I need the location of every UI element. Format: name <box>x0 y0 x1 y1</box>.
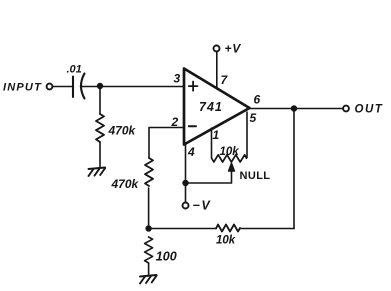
svg-text:+V: +V <box>225 42 242 56</box>
svg-text:470k: 470k <box>111 177 140 191</box>
svg-text:470k: 470k <box>108 124 137 138</box>
svg-text:.01: .01 <box>67 64 82 76</box>
svg-text:5: 5 <box>250 111 257 125</box>
svg-text:741: 741 <box>199 100 223 114</box>
svg-text:7: 7 <box>221 73 229 87</box>
svg-text:OUT: OUT <box>355 104 384 116</box>
svg-text:NULL: NULL <box>240 170 271 182</box>
svg-text:INPUT: INPUT <box>3 82 42 94</box>
svg-text:2: 2 <box>171 115 179 129</box>
svg-text:3: 3 <box>174 72 181 86</box>
svg-text:10k: 10k <box>216 235 236 247</box>
svg-text:6: 6 <box>254 93 261 107</box>
svg-text:100: 100 <box>156 250 177 264</box>
svg-text:1: 1 <box>213 128 220 142</box>
svg-text:10k: 10k <box>220 146 240 158</box>
svg-text:4: 4 <box>187 145 195 159</box>
svg-text:−V: −V <box>193 199 212 213</box>
